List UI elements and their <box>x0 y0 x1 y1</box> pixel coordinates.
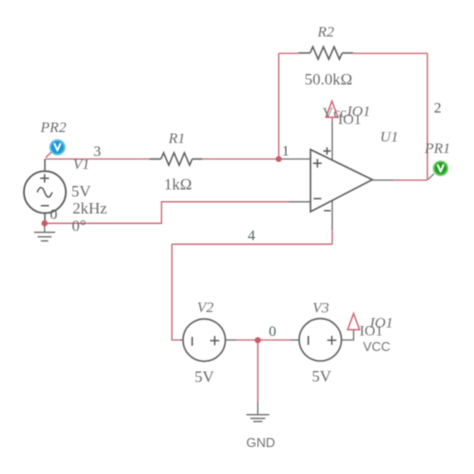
svg-text:PR2: PR2 <box>40 120 67 136</box>
op-amp output lead <box>372 179 393 181</box>
V2 left lead <box>179 339 183 341</box>
svg-text:R2: R2 <box>317 24 335 40</box>
svg-text:0: 0 <box>50 207 58 223</box>
wire net2 right vertical <box>426 53 428 180</box>
wire net4 horizontal <box>172 243 332 245</box>
ground stem left <box>44 223 46 232</box>
svg-text:5V: 5V <box>195 369 215 386</box>
op-amp U1 <box>311 147 373 211</box>
wire net3 R1 to node 1 <box>202 158 278 160</box>
svg-text:2: 2 <box>434 101 442 117</box>
svg-text:50.0kΩ: 50.0kΩ <box>305 72 353 89</box>
VCC arrow bottom <box>348 314 360 330</box>
svg-text:V2: V2 <box>197 300 214 316</box>
ground symbol bottom <box>246 415 269 422</box>
wire net0 from V1 bottom <box>45 202 289 224</box>
source V1 <box>24 159 66 223</box>
svg-text:GND: GND <box>246 435 275 450</box>
probe PR1 pointer <box>428 174 434 180</box>
svg-text:1kΩ: 1kΩ <box>164 176 192 193</box>
svg-text:5V: 5V <box>312 369 332 386</box>
svg-text:IO1: IO1 <box>360 324 383 340</box>
wire output red <box>394 179 428 181</box>
svg-text:2kHz: 2kHz <box>73 201 108 218</box>
resistor R1 <box>149 153 202 165</box>
svg-text:3: 3 <box>94 144 102 160</box>
junction node 1 <box>276 156 282 162</box>
svg-text:0°: 0° <box>72 218 86 235</box>
V3 left lead <box>290 339 300 341</box>
svg-text:0: 0 <box>269 324 277 340</box>
svg-text:R1: R1 <box>168 131 186 147</box>
probe PR2 <box>50 140 65 155</box>
junction node 0 bottom <box>255 337 261 343</box>
svg-text:PR1: PR1 <box>424 141 451 157</box>
wire node1 to op-amp noninverting input <box>279 158 311 160</box>
svg-text:V1: V1 <box>73 157 90 173</box>
wire to op-amp inverting input <box>288 201 310 203</box>
wire net4 vertical red <box>331 231 333 245</box>
svg-text:VCC: VCC <box>363 339 390 354</box>
junction node 0 left <box>42 220 48 226</box>
V2 right lead <box>226 339 236 341</box>
svg-text:1: 1 <box>282 144 290 160</box>
source V2 <box>183 319 225 361</box>
wire feedback top left <box>279 52 299 54</box>
op-amp negative supply pin gray <box>331 199 333 231</box>
resistor R2 <box>298 47 353 59</box>
wire feedback left vertical <box>278 53 280 159</box>
wire net0 V2 to V3 <box>236 339 290 341</box>
wire net4 left vertical to V2 <box>172 244 179 340</box>
source V3 <box>299 319 341 361</box>
wire net3 V1 to R1 <box>45 158 149 160</box>
wire feedback top right <box>353 52 427 54</box>
svg-text:IO1: IO1 <box>338 112 361 128</box>
V3 right lead to VCC <box>341 330 354 340</box>
svg-text:V3: V3 <box>313 300 330 316</box>
svg-text:4: 4 <box>248 228 256 244</box>
wire net0 down to ground <box>257 340 259 402</box>
probe PR2 pointer <box>46 152 52 158</box>
ground symbol left <box>34 232 55 241</box>
op-amp positive supply red stub <box>331 117 333 121</box>
ground stem bottom <box>257 402 259 415</box>
probe PR1 <box>434 161 448 175</box>
op-amp positive supply pin gray <box>331 122 333 163</box>
VCC arrow top <box>326 101 338 117</box>
svg-text:5V: 5V <box>71 184 91 201</box>
svg-text:U1: U1 <box>380 130 398 146</box>
